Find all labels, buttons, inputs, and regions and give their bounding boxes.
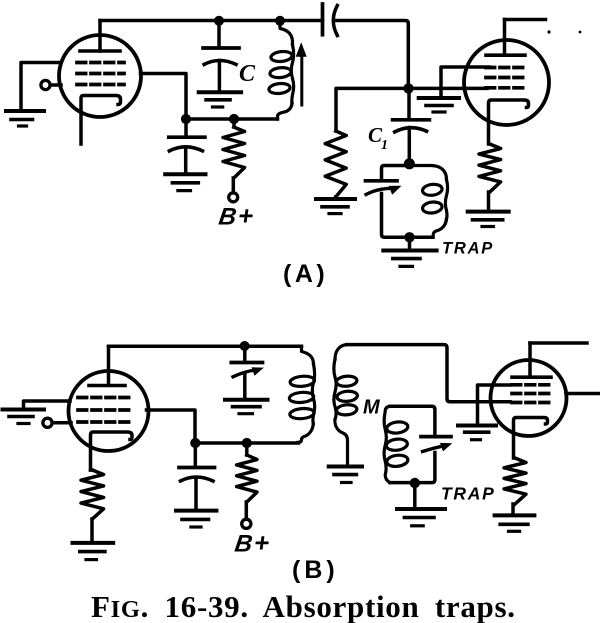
arrow (tuning, circuit A tank) <box>300 56 303 105</box>
capacitor C <box>203 21 239 92</box>
ground (input, far left) <box>6 109 44 113</box>
V4 grid 2 (dashed) <box>512 392 553 396</box>
svg-text:FIG. 16-39. Absorption traps.: FIG. 16-39. Absorption traps. <box>91 589 516 623</box>
inductor (primary coil, circuit B) <box>289 346 315 442</box>
ground (trap B) <box>413 483 417 507</box>
resistor (V2 cathode, circuit A) <box>479 144 501 192</box>
scan speck <box>547 30 550 33</box>
capacitor C3 (coupling) <box>323 4 338 36</box>
ground (trap A) <box>408 237 412 249</box>
V2 plate <box>486 20 525 56</box>
resistor (B+ dropping, circuit B) <box>245 443 249 455</box>
V1 plate <box>80 21 120 52</box>
wire: trap B right bottom <box>390 453 435 483</box>
inductor L1 (tank coil, circuit A) <box>268 21 293 120</box>
V3 grid 1 (dashed) <box>78 396 132 400</box>
tube V1 envelope (circuit A left) <box>59 35 141 117</box>
ground (V2 cathode resistor) <box>468 210 509 214</box>
ground (under input tank cap B) <box>225 398 268 402</box>
wire: mid bus circuit B <box>195 441 299 445</box>
V1 grid 1 (dashed) <box>77 61 124 65</box>
tube V3 envelope (circuit B left) <box>69 371 149 451</box>
V1 grid 2 (dashed) <box>77 72 124 76</box>
node: rail junction (tuning cap) <box>240 341 250 351</box>
ground (under C) <box>199 90 241 94</box>
V3 grid 3 (dashed) <box>78 420 132 424</box>
resistor (B+ dropping, circuit A) <box>232 119 236 127</box>
wire: junction to V2 grids <box>409 87 488 91</box>
V4 grid 3 (dashed) <box>512 401 553 405</box>
node: rail-C junction <box>214 16 224 26</box>
svg-text:(A): (A) <box>283 260 328 288</box>
wire: trap left bottom <box>382 194 433 238</box>
terminal B+ (circuit A) <box>229 193 238 202</box>
wire: plate rail circuit B <box>109 345 302 349</box>
capacitor (screen bypass, circuit A) <box>169 119 205 174</box>
svg-text:TRAP: TRAP <box>441 484 495 504</box>
V1 cathode <box>81 96 121 145</box>
resistor (V3 cathode) <box>91 468 93 472</box>
svg-text:B+: B+ <box>233 528 272 558</box>
wire: plate rail circuit A <box>100 19 323 23</box>
capacitor C1 <box>393 88 430 163</box>
wire: junction to grid resistor <box>336 88 409 131</box>
V4 cathode <box>514 418 548 459</box>
variable capacitor (trap A) <box>366 179 398 183</box>
ground (under grid resistor A) <box>316 197 355 201</box>
wire: V1 grid2 to bypass junction <box>141 74 187 120</box>
V4 grid 1 (dashed) <box>512 383 553 387</box>
resistor (grid leak, circuit A) <box>325 131 346 197</box>
scan speck <box>579 31 582 34</box>
svg-text:M: M <box>363 397 381 419</box>
wire: V4 grid2 output <box>566 392 600 396</box>
ground (V2 grid stub, circuit A) <box>439 88 443 96</box>
wire: trap top left <box>382 166 410 181</box>
ground (under bypass A) <box>165 172 205 176</box>
svg-text:1: 1 <box>381 138 388 153</box>
inductor (trap coil, circuit B) + trap loop left <box>384 406 408 482</box>
V1 grid-cap terminal <box>41 80 61 89</box>
V2 grid 2 (dashed) <box>486 76 526 80</box>
wire: V4 T-stub to grid1 <box>478 385 511 402</box>
node: trap B bottom junction <box>410 478 420 488</box>
tube V4 envelope (circuit B right) <box>491 360 567 436</box>
svg-text:TRAP: TRAP <box>442 240 494 258</box>
variable capacitor (input tank, circuit B) <box>231 346 262 399</box>
wire: trap B top <box>390 406 435 434</box>
wire: bottom bus of tank <box>186 117 278 121</box>
node: B+ resistor junction <box>229 114 239 124</box>
V4 plate rail to B+ <box>530 341 587 345</box>
inductor (trap coil, circuit A) <box>409 166 447 238</box>
ground (bypass B) <box>176 509 216 513</box>
wire: T-stub to V2 grid1 <box>441 67 489 88</box>
ground (V4 grid stub) <box>476 402 480 424</box>
resistor (V4 cathode, circuit B) <box>504 458 526 504</box>
wire: V3 grid2 out to junction <box>147 410 196 443</box>
V3 plate <box>89 347 125 386</box>
inductor (secondary coil, circuit B) <box>334 345 358 465</box>
V2 cathode <box>489 100 529 144</box>
V1 grid 3 (dashed) <box>77 83 124 87</box>
V2 grid 1 (dashed) <box>486 66 526 70</box>
node: grid junction circuit A <box>403 83 413 93</box>
V3 grid-cap terminal <box>43 418 71 427</box>
terminal B+ (circuit B) <box>242 519 251 528</box>
ground (input, circuit B) <box>3 408 45 412</box>
svg-text:B+: B+ <box>217 201 256 231</box>
node: trap bottom junction <box>404 232 414 242</box>
V3 grid 2 (dashed) <box>78 408 132 412</box>
V2 grid 3 (dashed) <box>486 86 526 90</box>
wire: V1 grid1 to left ground <box>21 63 61 109</box>
ground (V4 cathode resistor) <box>495 513 535 517</box>
wire: V3 grid1 to left ground <box>24 401 71 408</box>
wire: secondary to V4 grid <box>347 345 511 402</box>
node: rail-L1 junction <box>275 16 285 26</box>
svg-text:C: C <box>239 61 256 87</box>
variable capacitor (trap B) <box>421 435 451 439</box>
wire: coupling cap to grid junction <box>336 21 409 89</box>
V4 plate <box>512 343 551 377</box>
capacitor (bypass, circuit B) <box>179 443 215 509</box>
ground (V3 cathode resistor) <box>73 541 114 545</box>
V3 cathode <box>91 432 133 470</box>
V2 plate rail to B+ <box>505 18 546 22</box>
node: trap top junction <box>404 158 415 169</box>
node: bypass junction B <box>190 438 200 448</box>
node: bypass junction <box>181 114 191 124</box>
value label C1 <box>368 123 388 153</box>
svg-text:(B): (B) <box>292 556 339 584</box>
node: B+ resistor junction B <box>242 438 252 448</box>
tube V2 envelope (circuit A right) <box>464 40 549 125</box>
ground (secondary coil B) <box>329 465 362 469</box>
